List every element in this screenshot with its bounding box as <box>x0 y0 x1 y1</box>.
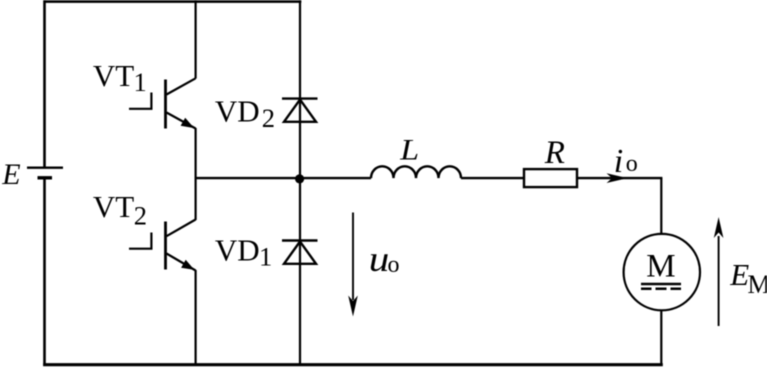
svg-text:1: 1 <box>259 242 272 272</box>
svg-text:u: u <box>369 240 390 279</box>
svg-text:M: M <box>748 270 767 299</box>
svg-text:i: i <box>614 143 623 180</box>
svg-text:2: 2 <box>134 200 147 230</box>
svg-text:VD: VD <box>215 94 260 129</box>
svg-text:1: 1 <box>134 67 147 97</box>
svg-text:VT: VT <box>93 189 134 224</box>
svg-text:VT: VT <box>93 58 134 93</box>
svg-text:R: R <box>544 135 565 171</box>
svg-text:E: E <box>1 158 20 191</box>
svg-text:VD: VD <box>215 233 260 268</box>
svg-text:L: L <box>399 132 419 166</box>
svg-text:M: M <box>646 248 675 284</box>
svg-text:2: 2 <box>262 103 275 133</box>
svg-text:o: o <box>388 252 400 278</box>
svg-text:o: o <box>626 151 638 177</box>
svg-text:E: E <box>729 257 749 292</box>
